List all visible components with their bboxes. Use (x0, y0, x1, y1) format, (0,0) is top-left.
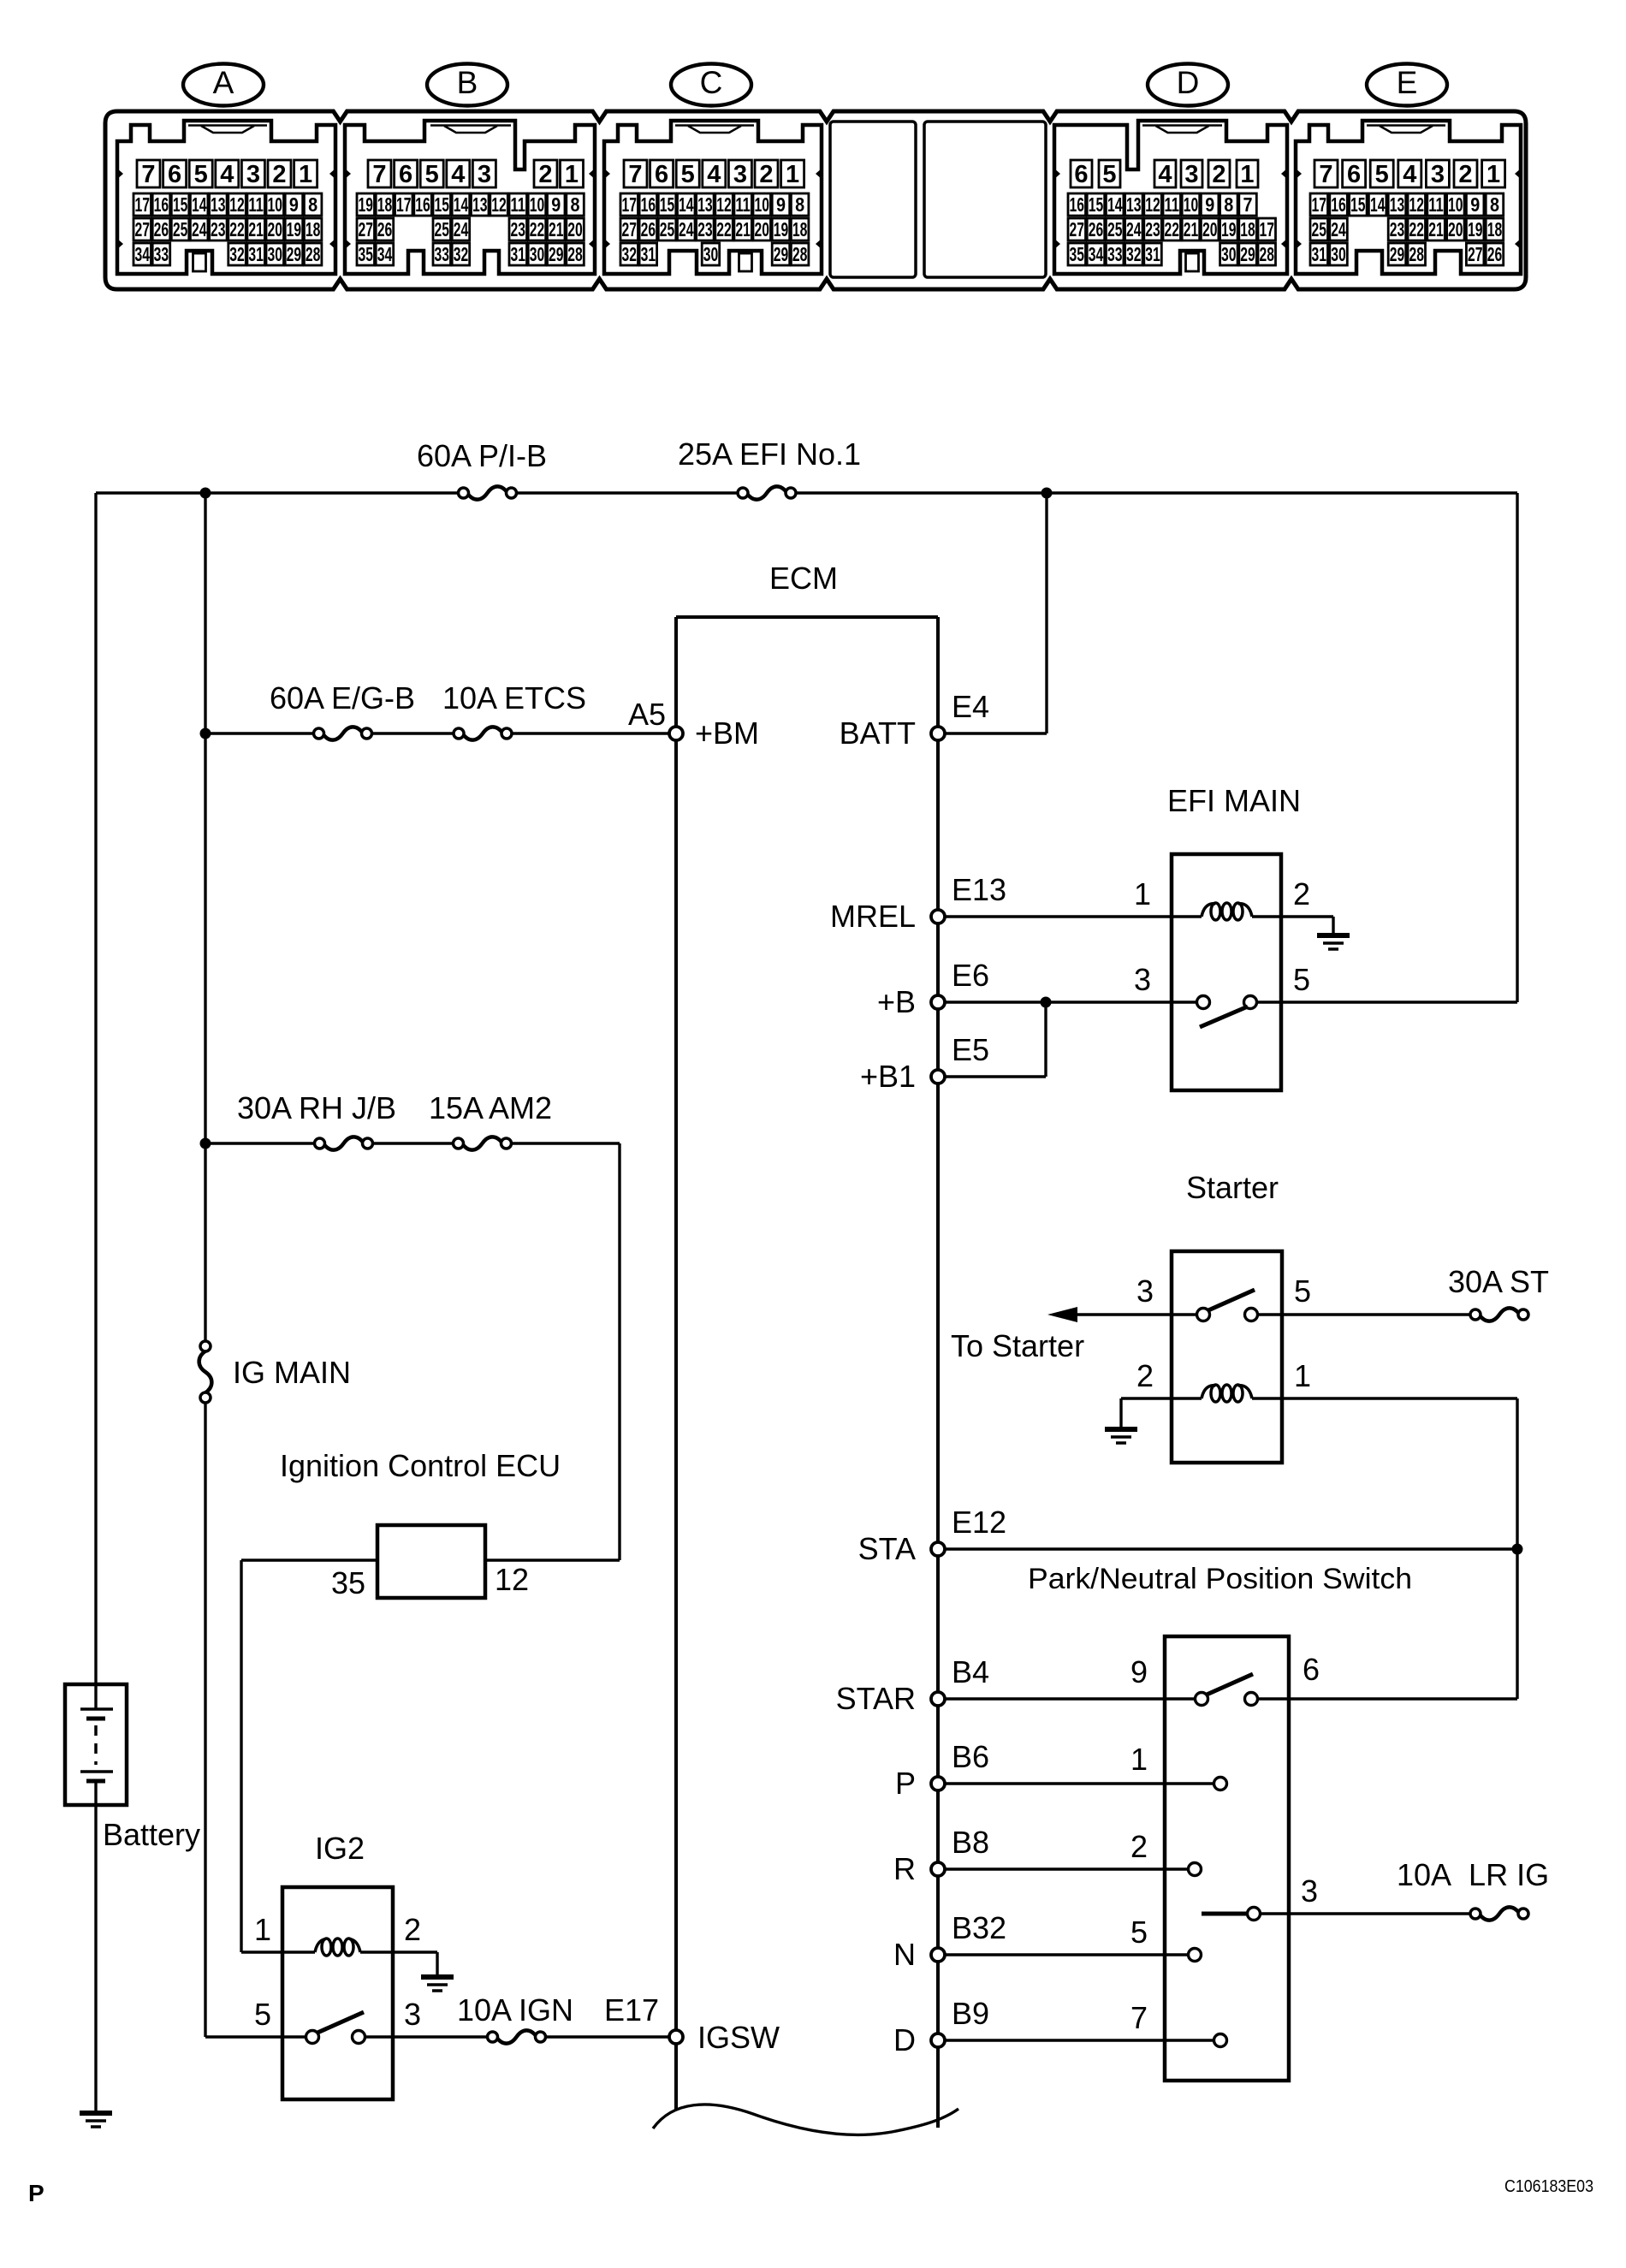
svg-text:23: 23 (1145, 218, 1160, 240)
connector pin 2 (row 1) (1454, 160, 1477, 187)
svg-text:P: P (895, 1766, 916, 1801)
connector pin 4 (row 1) (1154, 160, 1176, 187)
ground (IG2 coil) (421, 1974, 454, 1980)
svg-text:3: 3 (1431, 161, 1445, 188)
svg-text:16: 16 (415, 193, 430, 216)
svg-text:E13: E13 (952, 872, 1006, 907)
svg-text:ECM: ECM (769, 561, 838, 596)
svg-text:24: 24 (454, 218, 469, 240)
svg-text:Battery: Battery (103, 1817, 200, 1852)
svg-text:4: 4 (451, 161, 465, 188)
connector pin 21 (734, 218, 752, 240)
connector pin 27 (134, 218, 151, 240)
svg-text:2: 2 (759, 161, 773, 188)
IG2 switch contacts (306, 2012, 365, 2044)
svg-text:5: 5 (1375, 161, 1389, 188)
svg-text:18: 18 (377, 193, 393, 216)
svg-text:3: 3 (478, 161, 491, 188)
svg-text:1: 1 (1134, 876, 1151, 911)
svg-text:31: 31 (248, 243, 264, 265)
svg-text:21: 21 (549, 218, 564, 240)
svg-text:33: 33 (1107, 243, 1123, 265)
svg-text:2: 2 (1212, 161, 1225, 188)
svg-text:5: 5 (681, 161, 695, 188)
connector pin 26 (1486, 243, 1504, 265)
wire: second rail x=240 (204, 493, 206, 2037)
wire: D to P/N pin 7 (945, 2039, 1214, 2041)
svg-text:7: 7 (1243, 193, 1253, 216)
connector pin 14 (190, 193, 208, 216)
connector pin 22 (528, 218, 546, 240)
connector pin 6 (row 1) (395, 160, 418, 187)
connector pin 8 (304, 193, 322, 216)
svg-text:B6: B6 (952, 1739, 989, 1774)
svg-text:6: 6 (655, 161, 668, 188)
connector pin 12 (1408, 193, 1426, 216)
svg-text:E4: E4 (952, 689, 989, 724)
arrow head (To Starter) (1047, 1307, 1077, 1322)
fuse 30A RH J/B (237, 1090, 396, 1150)
svg-text:11: 11 (1428, 193, 1444, 216)
wire: P/N pin 6 to right rail (1258, 1697, 1517, 1700)
connector pin 5 (row 1) (1099, 160, 1120, 187)
connector pin 15 (171, 193, 189, 216)
connector D pins (1068, 160, 1276, 265)
svg-text:4: 4 (220, 161, 234, 188)
svg-text:9: 9 (289, 193, 299, 216)
connector A pins (134, 160, 322, 265)
connector pin 24 (1125, 218, 1143, 240)
wire: IG2 coil pin 2 to ground (360, 1952, 437, 1977)
svg-text:18: 18 (1487, 218, 1503, 240)
fuse 60A P/I-B (417, 438, 547, 500)
svg-text:11: 11 (735, 193, 751, 216)
svg-text:1: 1 (1130, 1742, 1148, 1777)
connector pin 3 (row 1) (1426, 160, 1449, 187)
svg-text:18: 18 (306, 218, 321, 240)
svg-text:26: 26 (154, 218, 169, 240)
svg-text:5: 5 (1294, 1274, 1311, 1309)
svg-text:BATT: BATT (840, 715, 916, 751)
junction node at (1222,1171) (1041, 997, 1052, 1008)
svg-text:29: 29 (1240, 243, 1255, 265)
svg-text:D: D (893, 2022, 916, 2057)
svg-text:25: 25 (434, 218, 449, 240)
wire: rail to IG2 pin 5 (205, 2035, 306, 2038)
svg-text:12: 12 (495, 1562, 529, 1597)
connector D ellipse label (1148, 64, 1228, 106)
wire: N to P/N pin 5 (945, 1953, 1189, 1956)
wire: Starter pin 5 to fuse 30A ST (1258, 1313, 1470, 1315)
svg-text:19: 19 (358, 193, 373, 216)
connector pin 20 (567, 218, 585, 240)
connector pin 16 (414, 193, 432, 216)
connector pin 2 (row 1) (534, 160, 557, 187)
connector pin 5 (row 1) (1370, 160, 1393, 187)
terminal N (B32) (931, 1948, 945, 1962)
svg-text:N: N (893, 1937, 916, 1972)
connector pin 4 (row 1) (1398, 160, 1421, 187)
connector pin 17 (1310, 193, 1328, 216)
svg-text:25: 25 (1311, 218, 1326, 240)
connector pin 11 (1427, 193, 1445, 216)
wire: +B to EFI MAIN switch pin 3 (945, 1000, 1197, 1003)
connector pin 10 (1182, 193, 1200, 216)
svg-text:6: 6 (168, 161, 181, 188)
terminal P (B6) (931, 1777, 945, 1790)
svg-text:15A AM2: 15A AM2 (429, 1090, 552, 1125)
connector pin 15 (1087, 193, 1105, 216)
ground (battery negative) (80, 2111, 112, 2116)
connector pin 30 (266, 243, 284, 265)
svg-text:24: 24 (192, 218, 207, 240)
svg-text:7: 7 (628, 161, 642, 188)
connector pin 24 (190, 218, 208, 240)
svg-text:B8: B8 (952, 1825, 989, 1860)
svg-text:10: 10 (530, 193, 545, 216)
connector pin 28 (1258, 243, 1276, 265)
svg-text:B9: B9 (952, 1996, 989, 2031)
junction node at (240,1336) (200, 1138, 211, 1149)
svg-text:24: 24 (679, 218, 694, 240)
svg-text:60A P/I-B: 60A P/I-B (417, 438, 547, 473)
connector pin 10 (266, 193, 284, 216)
connector pin 6 (row 1) (1071, 160, 1092, 187)
connector C pins (620, 160, 809, 265)
svg-text:Ignition Control ECU: Ignition Control ECU (280, 1448, 561, 1483)
connector pin 27 (357, 218, 375, 240)
svg-text:13: 13 (211, 193, 226, 216)
connector pin 25 (171, 218, 189, 240)
junction node at (1223,576) (1041, 488, 1053, 499)
connector pin 4 (row 1) (447, 160, 470, 187)
connector pin 27 (1068, 218, 1086, 240)
svg-text:8: 8 (571, 193, 580, 216)
connector pin 14 (1106, 193, 1124, 216)
svg-text:22: 22 (1409, 218, 1424, 240)
svg-text:2: 2 (1293, 876, 1310, 911)
svg-text:28: 28 (306, 243, 321, 265)
wire: +B1 branch (945, 1002, 1046, 1077)
svg-text:29: 29 (1390, 243, 1405, 265)
connector pin 3 (row 1) (241, 160, 264, 187)
P/N contact pin 5 (1189, 1949, 1202, 1962)
svg-text:6: 6 (1074, 161, 1088, 188)
svg-text:13: 13 (1390, 193, 1405, 216)
connector pin 5 (row 1) (676, 160, 699, 187)
Ignition Control ECU block (280, 1448, 561, 1598)
svg-text:IG2: IG2 (315, 1831, 365, 1866)
wire: P to P/N pin 1 (945, 1782, 1214, 1784)
svg-text:33: 33 (154, 243, 169, 265)
wire: BATT to top rail (945, 493, 1047, 733)
connector pin 14 (1368, 193, 1386, 216)
svg-text:32: 32 (621, 243, 637, 265)
connector pin 11 (1163, 193, 1181, 216)
connector pin 23 (697, 218, 715, 240)
connector pin 5 (row 1) (420, 160, 443, 187)
connector pin 4 (row 1) (703, 160, 726, 187)
svg-text:34: 34 (1089, 243, 1104, 265)
svg-text:Starter: Starter (1186, 1170, 1279, 1205)
wire: STAR to P/N pin 9 (945, 1697, 1196, 1700)
fusible link IG MAIN (199, 1341, 351, 1403)
svg-text:D: D (1177, 65, 1200, 100)
svg-text:9: 9 (1470, 193, 1480, 216)
connector pin 16 (152, 193, 170, 216)
Starter switch contacts (1197, 1290, 1258, 1321)
connector pin 2 (row 1) (755, 160, 778, 187)
terminal +BM (A5) (669, 727, 683, 740)
svg-text:22: 22 (229, 218, 245, 240)
connector pin 34 (1087, 243, 1105, 265)
connector pin 22 (1163, 218, 1181, 240)
connector pin 19 (285, 218, 303, 240)
svg-text:3: 3 (1184, 161, 1198, 188)
wire: ignition feed (y=1336) (205, 1143, 620, 1560)
connector pin 19 (357, 193, 375, 216)
svg-text:27: 27 (358, 218, 373, 240)
svg-text:5: 5 (254, 1997, 271, 2032)
connector pin 6 (row 1) (163, 160, 187, 187)
svg-text:21: 21 (1428, 218, 1444, 240)
connector pin 20 (753, 218, 771, 240)
connector pin 23 (210, 218, 228, 240)
svg-text:3: 3 (404, 1997, 421, 2032)
connector pin 19 (1220, 218, 1238, 240)
svg-text:IGSW: IGSW (697, 2020, 780, 2055)
svg-text:17: 17 (396, 193, 412, 216)
svg-text:E17: E17 (604, 1992, 659, 2028)
svg-text:35: 35 (358, 243, 373, 265)
svg-text:19: 19 (1221, 218, 1237, 240)
connector pin 26 (639, 218, 657, 240)
connector pin 7 (row 1) (624, 160, 647, 187)
wire: Ignition Control ECU pin 12 (485, 1559, 620, 1561)
connector pin 29 (1388, 243, 1406, 265)
svg-text:5: 5 (425, 161, 439, 188)
connector C housing outline (603, 121, 822, 274)
connector pin 10 (753, 193, 771, 216)
connector pin 20 (1447, 218, 1465, 240)
connector pin 8 (791, 193, 809, 216)
svg-text:28: 28 (792, 243, 808, 265)
connector pin 16 (1068, 193, 1086, 216)
connector pin 18 (376, 193, 394, 216)
connector pin 17 (1258, 218, 1276, 240)
svg-text:12: 12 (491, 193, 507, 216)
EFI MAIN switch contacts (1197, 996, 1257, 1028)
svg-text:B4: B4 (952, 1654, 989, 1689)
svg-text:20: 20 (268, 218, 283, 240)
connector pin 34 (376, 243, 394, 265)
terminal D (B9) (931, 2033, 945, 2047)
connector pin 7 (row 1) (1314, 160, 1338, 187)
svg-text:7: 7 (1319, 161, 1332, 188)
svg-text:12: 12 (1409, 193, 1424, 216)
connector pin 13 (1388, 193, 1406, 216)
wire: Starter coil pin 1 to right rail (1252, 1397, 1517, 1399)
svg-text:22: 22 (716, 218, 732, 240)
svg-text:30: 30 (1331, 243, 1346, 265)
connector pin 25 (433, 218, 451, 240)
connector pin 16 (639, 193, 657, 216)
connector pin 13 (472, 193, 490, 216)
svg-text:7: 7 (141, 161, 155, 188)
svg-text:17: 17 (621, 193, 637, 216)
connector pin 20 (266, 218, 284, 240)
connector pin 18 (791, 218, 809, 240)
EFI MAIN coil (1202, 904, 1216, 917)
svg-text:25: 25 (173, 218, 188, 240)
connector pin 24 (1330, 218, 1348, 240)
connector pin 8 (567, 193, 585, 216)
svg-text:27: 27 (1468, 243, 1483, 265)
svg-text:25: 25 (1107, 218, 1123, 240)
svg-text:8: 8 (1224, 193, 1233, 216)
terminal +B1 (E5) (931, 1070, 945, 1084)
svg-text:13: 13 (472, 193, 488, 216)
svg-text:E5: E5 (952, 1032, 989, 1067)
connector pin 18 (1239, 218, 1257, 240)
terminal +B (E6) (931, 995, 945, 1009)
junction node at (1773,1810) (1512, 1544, 1523, 1555)
svg-text:R: R (893, 1851, 916, 1886)
connector pin 4 (row 1) (216, 160, 239, 187)
svg-text:31: 31 (1145, 243, 1160, 265)
wire: P/N pin 3 to fuse 10A LR IG (1260, 1912, 1470, 1915)
svg-text:35: 35 (1069, 243, 1084, 265)
connector pin 14 (452, 193, 470, 216)
svg-text:7: 7 (1130, 2000, 1148, 2035)
connector pin 29 (548, 243, 566, 265)
connector pin 12 (715, 193, 733, 216)
svg-text:12: 12 (716, 193, 732, 216)
connector pin 13 (697, 193, 715, 216)
svg-text:2: 2 (1136, 1358, 1154, 1393)
svg-text:14: 14 (679, 193, 694, 216)
connector pin 2 (row 1) (268, 160, 291, 187)
connector pin 25 (658, 218, 676, 240)
connector pin 23 (1388, 218, 1406, 240)
connector pin 3 (row 1) (728, 160, 751, 187)
svg-text:30A RH J/B: 30A RH J/B (237, 1090, 396, 1125)
terminal MREL (E13) (931, 910, 945, 923)
Starter coil (1202, 1386, 1216, 1398)
svg-text:1: 1 (1240, 161, 1254, 188)
connector pin 9 (548, 193, 566, 216)
svg-text:3: 3 (246, 161, 260, 188)
svg-text:22: 22 (1164, 218, 1179, 240)
svg-text:To Starter: To Starter (951, 1328, 1084, 1363)
svg-text:32: 32 (1126, 243, 1142, 265)
svg-text:32: 32 (229, 243, 245, 265)
svg-text:19: 19 (774, 218, 789, 240)
svg-text:E: E (1397, 65, 1418, 100)
connector pin 18 (1486, 218, 1504, 240)
junction node at (240,576) (200, 488, 211, 499)
blank connector slot 2 (924, 122, 1046, 277)
connector pin 11 (247, 193, 265, 216)
connector pin 7 (row 1) (137, 160, 160, 187)
connector pin 33 (1106, 243, 1124, 265)
svg-text:2: 2 (1130, 1829, 1148, 1864)
svg-text:15: 15 (1350, 193, 1366, 216)
connector pin 9 (1466, 193, 1484, 216)
fuse 10A LR IG (1397, 1857, 1549, 1921)
svg-text:11: 11 (510, 193, 525, 216)
svg-text:5: 5 (1130, 1915, 1148, 1950)
svg-text:31: 31 (641, 243, 656, 265)
ground (Starter coil) (1105, 1427, 1137, 1432)
svg-text:A: A (213, 65, 234, 100)
wire: right rail x=1773 (starter to P/N switch) (1516, 1398, 1518, 1699)
svg-text:C106183E03: C106183E03 (1504, 2177, 1593, 2196)
svg-text:27: 27 (1069, 218, 1084, 240)
connector pin 12 (490, 193, 508, 216)
svg-text:IG MAIN: IG MAIN (233, 1355, 351, 1390)
connector pin 23 (1144, 218, 1162, 240)
svg-text:10: 10 (1448, 193, 1463, 216)
svg-text:31: 31 (1311, 243, 1326, 265)
svg-text:2: 2 (1458, 161, 1472, 188)
connector pin 9 (1201, 193, 1219, 216)
svg-text:14: 14 (1107, 193, 1123, 216)
svg-text:31: 31 (510, 243, 525, 265)
connector pin 8 (1220, 193, 1238, 216)
wire: To Starter arrow line (1075, 1313, 1197, 1315)
svg-text:16: 16 (641, 193, 656, 216)
svg-text:12: 12 (229, 193, 245, 216)
connector pin 16 (1330, 193, 1348, 216)
connector pin 21 (1427, 218, 1445, 240)
connector pin 26 (152, 218, 170, 240)
svg-text:10: 10 (755, 193, 770, 216)
svg-text:17: 17 (134, 193, 150, 216)
svg-text:15: 15 (173, 193, 188, 216)
connector pin 19 (1466, 218, 1484, 240)
svg-text:25: 25 (660, 218, 675, 240)
connector pin 21 (1182, 218, 1200, 240)
P/N contact pin 2 (1189, 1863, 1202, 1876)
svg-text:29: 29 (774, 243, 789, 265)
fuse 10A ETCS (442, 680, 586, 740)
svg-text:9: 9 (776, 193, 786, 216)
wire: MREL to EFI MAIN coil pin 1 (945, 915, 1202, 917)
svg-text:15: 15 (1089, 193, 1104, 216)
svg-text:5: 5 (194, 161, 208, 188)
svg-text:1: 1 (254, 1912, 271, 1947)
svg-text:20: 20 (1448, 218, 1463, 240)
svg-text:1: 1 (299, 161, 312, 188)
connector pin 14 (678, 193, 696, 216)
connector pin 6 (row 1) (650, 160, 674, 187)
connector pin 3 (row 1) (472, 160, 496, 187)
svg-text:9: 9 (1205, 193, 1214, 216)
svg-text:21: 21 (1184, 218, 1199, 240)
connector pin 12 (1144, 193, 1162, 216)
connector pin 18 (304, 218, 322, 240)
svg-text:19: 19 (287, 218, 302, 240)
connector A housing outline (116, 121, 336, 274)
svg-text:+BM: +BM (695, 715, 759, 751)
svg-text:21: 21 (248, 218, 264, 240)
connector D housing outline (1053, 121, 1288, 274)
connector pin 1 (row 1) (781, 160, 804, 187)
svg-text:27: 27 (134, 218, 150, 240)
connector pin 17 (134, 193, 151, 216)
connector pin 2 (row 1) (1208, 160, 1230, 187)
